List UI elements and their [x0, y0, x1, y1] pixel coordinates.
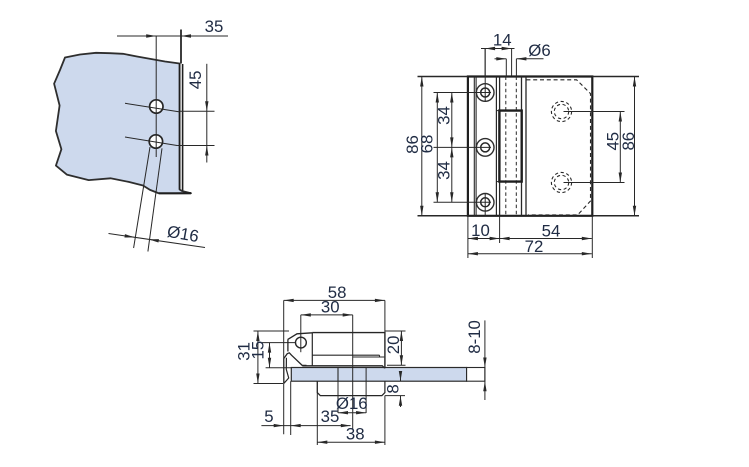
svg-text:20: 20 [384, 336, 403, 355]
svg-text:34: 34 [434, 161, 453, 180]
svg-text:38: 38 [346, 424, 365, 443]
svg-text:Ø16: Ø16 [336, 394, 368, 413]
svg-text:86: 86 [619, 132, 638, 151]
svg-text:45: 45 [186, 71, 205, 90]
svg-text:15: 15 [249, 341, 268, 360]
svg-text:30: 30 [321, 298, 340, 317]
svg-text:35: 35 [205, 17, 224, 36]
svg-text:5: 5 [264, 407, 273, 426]
svg-text:8: 8 [383, 384, 402, 393]
svg-text:68: 68 [418, 135, 437, 154]
svg-text:54: 54 [542, 222, 561, 241]
svg-text:10: 10 [471, 221, 490, 240]
svg-text:72: 72 [525, 237, 544, 256]
svg-text:8-10: 8-10 [465, 320, 484, 354]
svg-text:Ø6: Ø6 [528, 41, 550, 60]
svg-text:14: 14 [493, 31, 512, 50]
svg-text:34: 34 [434, 106, 453, 125]
